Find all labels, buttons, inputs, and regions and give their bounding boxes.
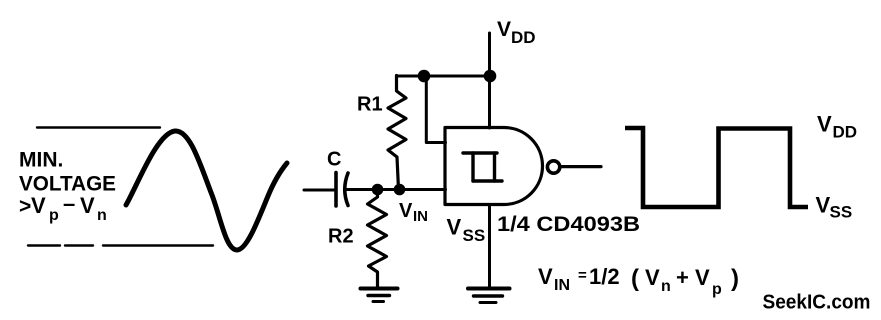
ground (R2) [361, 289, 398, 302]
label MIN VOLTAGE >Vp-Vn [19, 149, 116, 225]
svg-text:p: p [712, 281, 722, 298]
wire VIN node: capacitor to gate lower input [346, 188, 446, 191]
upper reference dashed line [37, 126, 160, 128]
svg-text:SS: SS [830, 203, 853, 222]
label VDD (output high level) [817, 112, 857, 142]
svg-text:IN: IN [554, 277, 570, 294]
svg-text:SeekIC.com: SeekIC.com [763, 292, 871, 314]
label VSS (output low level) [816, 193, 853, 222]
output inversion bubble [547, 161, 559, 173]
resistor R2 [368, 190, 387, 289]
svg-text:): ) [731, 265, 739, 292]
capacitor C [336, 173, 348, 207]
VDD supply lead [488, 33, 491, 128]
svg-text:n: n [97, 207, 107, 224]
svg-text:=: = [578, 267, 587, 284]
svg-text:p: p [49, 207, 59, 224]
wire input to capacitor [304, 189, 334, 192]
svg-text:1/2: 1/2 [589, 264, 620, 289]
svg-text:n: n [661, 278, 671, 295]
NAND Schmitt trigger U1 (1/4 CD4093B) body [445, 128, 543, 205]
svg-text:V: V [817, 112, 832, 137]
svg-text:V: V [816, 193, 831, 218]
svg-text:V: V [538, 264, 553, 289]
svg-text:R1: R1 [357, 94, 383, 116]
svg-text:DD: DD [833, 123, 858, 142]
lower reference dashed line [28, 244, 213, 246]
label VDD (supply, top) [497, 18, 536, 47]
output wire [561, 165, 602, 168]
resistor R1 [388, 76, 406, 190]
hysteresis symbol inside U1 [463, 153, 502, 181]
svg-text:>: > [19, 195, 31, 218]
svg-text:V: V [80, 193, 95, 218]
svg-text:SS: SS [463, 226, 486, 245]
svg-text:V: V [399, 200, 413, 222]
svg-text:+: + [676, 265, 689, 290]
junction dot VDD/top rail [484, 70, 497, 83]
svg-text:V: V [31, 193, 46, 218]
svg-text:(: ( [631, 265, 639, 292]
VSS lead from gate [488, 205, 491, 290]
wire top rail (R1 top to VDD) [397, 75, 491, 78]
svg-text:MIN.: MIN. [19, 149, 63, 172]
svg-text:V: V [695, 265, 710, 290]
svg-text:C: C [327, 149, 341, 171]
junction dot VIN/R2 [372, 184, 384, 196]
svg-text:1/4 CD4093B: 1/4 CD4093B [497, 213, 640, 236]
svg-text:IN: IN [413, 208, 428, 225]
label VIN (node) [399, 200, 428, 225]
label VSS (gate pin) [447, 215, 486, 246]
svg-text:–: – [63, 191, 75, 216]
equation VIN = 1/2 (Vn + Vp) [538, 264, 739, 298]
ground (gate VSS) [468, 289, 510, 303]
junction dot VIN/R1 [394, 184, 406, 196]
svg-text:V: V [447, 215, 462, 240]
svg-text:R2: R2 [328, 226, 354, 248]
junction dot feedback/top rail [418, 70, 431, 83]
svg-text:V: V [645, 265, 660, 290]
wire top rail to gate upper input [426, 76, 445, 143]
svg-text:V: V [497, 18, 511, 41]
square wave output [625, 128, 808, 207]
sine wave input [126, 131, 287, 250]
svg-text:DD: DD [511, 28, 536, 47]
